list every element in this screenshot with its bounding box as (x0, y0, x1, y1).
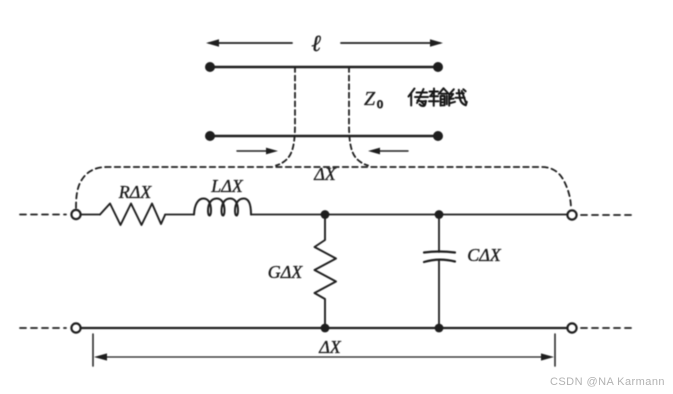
node terminal bottom-right (open) (567, 323, 576, 332)
node junction top C (435, 210, 444, 219)
svg-text:CΔX: CΔX (467, 245, 502, 265)
svg-text:CSDN @NA Karmann: CSDN @NA Karmann (550, 376, 665, 388)
svg-text:LΔX: LΔX (210, 176, 244, 196)
dimension tick right (554, 334, 556, 366)
wire dashed stub top-right (581, 214, 634, 216)
dimension arrow delta-X bottom (94, 353, 554, 360)
inductor LdX (194, 199, 251, 216)
transmission line top conductor (205, 62, 443, 72)
svg-text:GΔX: GΔX (268, 262, 304, 282)
glyph chuan (409, 89, 415, 106)
transmission line bottom conductor (205, 131, 443, 141)
node terminal top-left (open) (71, 210, 80, 219)
resistor RdX (100, 204, 165, 226)
label chuanshuxian (transmission line, CJK drawn) (409, 88, 467, 106)
dimension arrow ell right segment (341, 39, 443, 47)
wire dashed stub bottom-right (581, 327, 635, 329)
node terminal top-right (open) (567, 210, 576, 219)
capacitor CdX (shunt) (424, 215, 455, 329)
arrow right (current direction) (237, 148, 278, 155)
dimension arrow ell left segment (206, 39, 292, 47)
dashed drop line right (from transmission line) (349, 67, 368, 166)
wire dashed stub top-left (20, 214, 66, 216)
dashed drop line left (from transmission line) (276, 67, 295, 166)
wire (165, 214, 194, 216)
svg-text:ℓ: ℓ (311, 31, 321, 56)
wire dashed stub bottom-left (20, 327, 66, 329)
svg-text:RΔX: RΔX (118, 182, 153, 202)
dashed envelope curve (76, 167, 571, 209)
label Z0 (364, 88, 383, 111)
svg-text:0: 0 (377, 97, 383, 111)
node terminal bottom-left (open) (71, 323, 80, 332)
svg-text:Z: Z (364, 88, 376, 110)
node junction top G (321, 210, 330, 219)
wire top rail (251, 214, 567, 216)
resistor GdX (shunt) (315, 215, 337, 329)
wire bottom rail (81, 327, 567, 329)
svg-text:ΔX: ΔX (318, 337, 342, 357)
glyph xian (449, 89, 455, 103)
arrow left (current direction) (368, 148, 408, 155)
wire (81, 214, 100, 216)
dimension tick left (92, 334, 94, 366)
node junction bottom C (435, 324, 444, 333)
node junction bottom G (321, 324, 330, 333)
glyph shu (429, 89, 439, 106)
